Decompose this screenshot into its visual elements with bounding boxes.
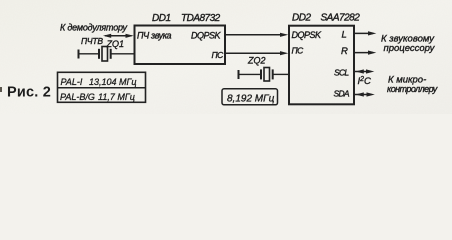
svg-text:ZQ2: ZQ2 — [247, 55, 266, 65]
svg-text:DD1TDA8732: DD1TDA8732 — [152, 13, 221, 24]
svg-text:11,7 МГц: 11,7 МГц — [98, 92, 135, 102]
wire SCL bidirectional — [354, 71, 371, 73]
IC DD1 TDA8732 body — [135, 26, 226, 65]
svg-text:PAL-B/G: PAL-B/G — [60, 92, 95, 102]
arrowhead SCL left (to chip) — [356, 69, 364, 73]
svg-text:8,192 МГц: 8,192 МГц — [227, 94, 275, 105]
arrowhead toward demodulator (left) — [103, 34, 111, 38]
arrowhead R — [368, 51, 376, 55]
arrowhead DQPSK into DD2 — [280, 33, 288, 37]
value box 8,192 МГц — [222, 89, 278, 105]
svg-text:процессору: процессору — [384, 43, 436, 54]
svg-text:ПС: ПС — [292, 46, 305, 56]
wire DQPSK DD1 to DD2 — [225, 34, 285, 36]
svg-text:I2С: I2С — [358, 76, 372, 87]
arrowheads — [103, 31, 376, 96]
svg-text:SCL: SCL — [334, 68, 349, 78]
svg-text:контроллеру: контроллеру — [387, 84, 438, 94]
svg-text:ZQ1: ZQ1 — [106, 39, 125, 49]
table PAL standards — [58, 72, 146, 102]
arrowhead into DD1 (right) — [126, 34, 134, 38]
arrowhead L — [368, 31, 376, 35]
wire: double arrow from demodulator to DD1 — [105, 35, 132, 37]
svg-text:13,104 МГц: 13,104 МГц — [89, 77, 137, 87]
svg-text:ПЧзвука: ПЧзвука — [137, 31, 172, 41]
svg-text:R: R — [341, 46, 348, 57]
scan artifact left edge — [0, 87, 2, 92]
svg-text:DQPSK: DQPSK — [292, 30, 323, 40]
svg-text:Рис. 2: Рис. 2 — [7, 84, 51, 100]
arrowhead SCL right — [366, 69, 374, 73]
svg-text:ПС: ПС — [212, 50, 225, 60]
svg-text:PAL-I: PAL-I — [61, 77, 83, 87]
wire SDA bidirectional — [354, 94, 372, 96]
crystal ZQ2 — [239, 68, 290, 82]
arrowhead SDA left (to chip) — [356, 92, 364, 96]
crystal ZQ1 — [79, 47, 135, 62]
wire L output — [354, 32, 373, 34]
wire R output — [354, 52, 373, 54]
svg-text:К демодулятору: К демодулятору — [60, 23, 128, 33]
svg-text:SDA: SDA — [334, 89, 350, 99]
svg-text:DD2SAA7282: DD2SAA7282 — [292, 12, 360, 23]
arrowhead ПС into DD2 — [280, 51, 288, 55]
arrowhead SDA right — [367, 92, 375, 96]
svg-text:L: L — [342, 29, 347, 40]
wire ПС DD1 to DD2 — [225, 52, 285, 54]
IC DD2 SAA7282 body — [289, 26, 354, 105]
svg-text:ПЧТВ: ПЧТВ — [81, 36, 103, 46]
svg-text:DQPSK: DQPSK — [191, 31, 222, 41]
